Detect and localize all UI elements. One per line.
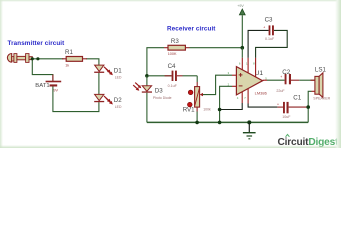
svg-text:+: + <box>280 75 282 79</box>
wire: speaker bottom down to ground bus corner <box>308 91 311 122</box>
svg-text:SPEAKER: SPEAKER <box>313 97 330 101</box>
wire: op-amp pin 7 to C1 <box>248 104 277 108</box>
junction: +9V rail and R3 <box>241 46 245 50</box>
svg-text:100k: 100k <box>203 107 211 111</box>
svg-text:Transmitter circuit: Transmitter circuit <box>8 40 66 47</box>
svg-text:1k: 1k <box>65 63 69 67</box>
connector J1 audio plug <box>7 54 32 63</box>
wire: R3 to +9V rail junction <box>190 47 243 49</box>
svg-text:LM386: LM386 <box>255 90 268 95</box>
pin number 4 <box>237 96 239 100</box>
junction: RV1 bottom on bus <box>195 121 199 125</box>
capacitor C1 <box>277 95 308 119</box>
svg-text:C2: C2 <box>282 69 290 76</box>
logo CircuitDigest <box>278 134 340 147</box>
speaker LS1 <box>311 67 331 101</box>
wire: RV1 wiper to op-amp pin 3 <box>203 75 232 94</box>
wire: D1 cathode to D2 anode <box>98 73 100 95</box>
pin number 1 <box>246 62 248 66</box>
power +9V symbol <box>237 4 245 48</box>
junction: C1 right on speaker ground wire <box>306 105 310 109</box>
wire: ground bus <box>147 121 308 123</box>
junction: jack sleeve node <box>31 57 34 60</box>
pin number 2 <box>228 82 230 86</box>
resistor R1 <box>62 49 87 68</box>
wire: C3 right loop down to op-amp pin 8 <box>256 30 288 57</box>
capacitor C3 <box>263 17 275 41</box>
wire: C4 right corner down to RV1 top <box>196 76 198 82</box>
wire: transmitter top rail from jack to R1 <box>32 58 63 60</box>
svg-text:100K: 100K <box>168 52 177 56</box>
svg-text:C3: C3 <box>265 17 273 24</box>
junction: ground symbol on bus <box>247 120 251 124</box>
junction: pin2 wire on bus <box>218 121 222 125</box>
capacitor C2 <box>276 69 299 93</box>
capacitor C4 <box>149 63 198 88</box>
svg-text:2: 2 <box>228 82 230 86</box>
svg-text:C4: C4 <box>168 63 176 70</box>
wire: C2 to speaker <box>299 79 315 81</box>
wire: D3 cathode down to ground bus <box>146 93 148 123</box>
svg-text:LED: LED <box>115 105 122 109</box>
potentiometer RV1 <box>183 82 211 114</box>
wire: op-amp pin 2 down to ground bus <box>220 86 232 122</box>
pin number 6 <box>239 62 241 66</box>
svg-text:10uF: 10uF <box>282 115 291 119</box>
svg-text:LS1: LS1 <box>315 67 327 74</box>
pin number 5 <box>265 77 267 81</box>
LED D2 <box>94 94 122 108</box>
svg-text:+9V: +9V <box>237 4 244 8</box>
wire: C3 left lead down to op-amp pin 1 <box>248 30 269 57</box>
svg-text:+: + <box>263 26 265 30</box>
photodiode D3 <box>133 76 171 100</box>
junction: pin2 ground wire and pin4 wire <box>218 108 222 112</box>
resistor R3 <box>164 38 190 56</box>
svg-text:8: 8 <box>253 62 255 66</box>
svg-text:D1: D1 <box>114 68 122 75</box>
svg-text:Receiver circuit: Receiver circuit <box>167 26 216 33</box>
svg-text:0.1uF: 0.1uF <box>168 84 178 88</box>
wire: R1 right to LED column corner <box>86 59 99 65</box>
svg-text:C1: C1 <box>293 95 301 102</box>
ground <box>243 122 256 138</box>
svg-text:4: 4 <box>237 96 239 100</box>
svg-text:Photo Diode: Photo Diode <box>153 96 172 100</box>
wire: battery minus loop to D2 bottom <box>53 86 99 111</box>
svg-text:R1: R1 <box>65 49 73 56</box>
svg-text:22uF: 22uF <box>276 89 285 93</box>
pin number 7 <box>244 96 246 100</box>
junction: jack tip node <box>36 57 39 60</box>
svg-text:0.1uF: 0.1uF <box>265 37 275 41</box>
op-amp U1 LM386 <box>232 58 268 104</box>
junction: R3/C4/D3 node <box>145 74 149 78</box>
svg-text:3: 3 <box>228 71 230 75</box>
svg-text:D2: D2 <box>114 97 122 104</box>
wire: op-amp output to C2 <box>267 79 285 81</box>
battery BAT1 <box>35 75 61 93</box>
svg-text:LED: LED <box>115 76 122 80</box>
pin number 3 <box>228 71 230 75</box>
svg-text:9V: 9V <box>53 88 58 92</box>
LED D1 <box>94 65 122 79</box>
wire: RV1 bottom to ground bus <box>196 112 198 123</box>
wire: +9V junction down to op-amp pin 6 <box>241 48 243 58</box>
wire: op-amp pin 4 to ground tie <box>220 103 243 110</box>
svg-text:BAT1: BAT1 <box>35 83 49 89</box>
svg-text:R3: R3 <box>171 38 179 45</box>
svg-text:+: + <box>277 102 279 106</box>
pin number 8 <box>253 62 255 66</box>
svg-text:RV1: RV1 <box>183 107 195 114</box>
svg-text:6: 6 <box>239 62 241 66</box>
label: Transmitter circuit <box>8 40 66 47</box>
label: Receiver circuit <box>167 26 216 33</box>
svg-text:D3: D3 <box>155 87 163 94</box>
svg-text:7: 7 <box>244 96 246 100</box>
wire: jack down to battery <box>32 59 53 81</box>
wire: R3 left lead corner down to photodiode node <box>147 48 164 76</box>
